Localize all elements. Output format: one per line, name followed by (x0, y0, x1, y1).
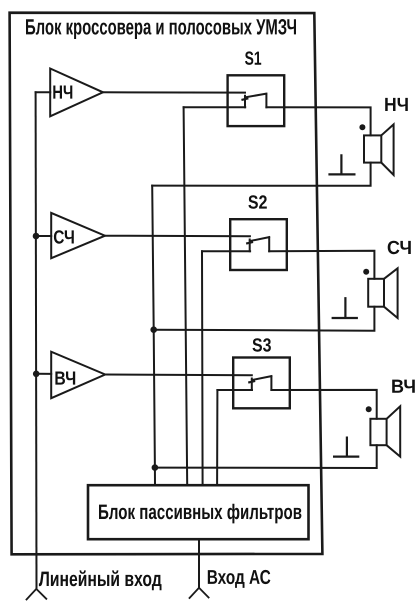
wire: S1 lower-left to filter bus (184, 106, 246, 108)
ground near СЧ speaker (333, 298, 357, 318)
label: ВЧ amp (55, 372, 75, 385)
wire: S3 bus vertical (216, 390, 218, 485)
label: СЧ speaker (388, 241, 411, 255)
input arrow Вход АС (190, 588, 209, 598)
speaker НЧ polarity dot (359, 124, 365, 130)
passive filter block box (88, 485, 309, 539)
label: НЧ speaker (385, 98, 408, 111)
node: VCh amp input junction (33, 371, 40, 378)
ground near ВЧ speaker (334, 438, 358, 457)
node: VCh return junction (152, 464, 159, 471)
wire: line input bus vertical (35, 92, 38, 589)
speaker НЧ box (364, 135, 381, 162)
wire: SCh speaker return (154, 307, 375, 331)
wire: SCh amp output to S2 upper contact (105, 235, 250, 238)
wire: SCh amp input stub (36, 235, 51, 237)
label: Линейный вход (39, 570, 162, 590)
wire: NCh amp input stub (36, 91, 51, 93)
op-amp ВЧ (high-freq amplifier) (51, 352, 105, 399)
label: passive filter block (99, 504, 301, 524)
wire: S1 output to NCh speaker (266, 107, 370, 135)
crossover block outer box (10, 13, 323, 555)
node: SCh amp input junction (33, 233, 40, 240)
label: НЧ amp (53, 86, 72, 99)
speaker ВЧ horn (387, 406, 401, 456)
label: title (26, 19, 296, 39)
wire: VCh amp output to S3 upper contact (105, 374, 252, 377)
label: ВЧ speaker (392, 380, 415, 393)
wire: VCh amp input stub (36, 373, 51, 375)
wire: S2 lower-left to filter bus (202, 250, 250, 252)
switch S2 box (230, 219, 287, 270)
ground near НЧ speaker (330, 155, 355, 174)
wire: common return bus vertical (152, 186, 155, 486)
speaker СЧ box (368, 279, 384, 307)
label: Вход АС (208, 570, 271, 588)
op-amp НЧ (low-freq amplifier) (50, 69, 103, 117)
wire: S2 output to SCh speaker (269, 251, 374, 279)
speaker ВЧ box (370, 419, 386, 445)
wire: S3 output to VCh speaker (271, 390, 376, 419)
wire: VCh speaker return (155, 445, 377, 468)
wire: S2 bus vertical (201, 251, 204, 485)
label: S3 (253, 338, 271, 352)
switch S1 contacts and lever (245, 94, 266, 108)
speaker СЧ horn (384, 268, 398, 318)
switch S2 contacts and lever (250, 237, 270, 251)
op-amp СЧ (mid-freq amplifier) (51, 213, 105, 258)
wire: NCh speaker return (152, 163, 370, 186)
label: S2 (248, 195, 266, 209)
label: S1 (245, 51, 261, 65)
speaker СЧ polarity dot (363, 269, 369, 275)
wire: AC input line (198, 539, 200, 588)
speaker НЧ horn (381, 124, 393, 174)
wire: S1 bus vertical (184, 107, 188, 485)
wire: NCh amp output to S1 upper contact (103, 91, 245, 93)
switch S1 box (228, 75, 285, 126)
label: СЧ amp (54, 230, 74, 244)
speaker ВЧ polarity dot (366, 406, 372, 412)
input arrow Линейный вход (27, 589, 47, 600)
wire: S3 lower-left to filter bus (217, 389, 252, 391)
node: SCh return junction (150, 326, 157, 333)
switch S3 box (233, 358, 290, 409)
switch S3 contacts and lever (252, 376, 272, 390)
